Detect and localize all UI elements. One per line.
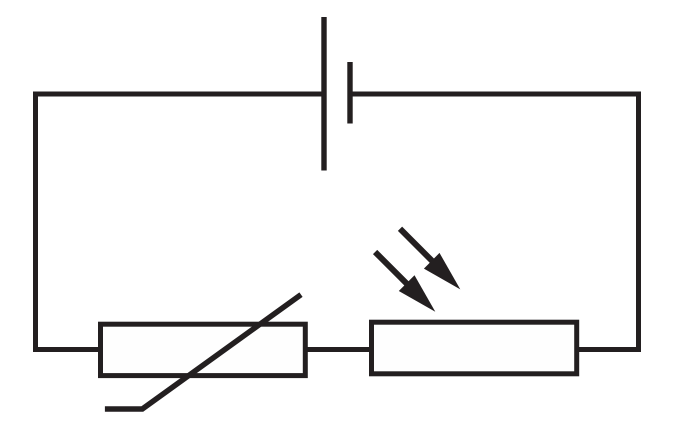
LDR light arrow (lower) bbox=[375, 252, 435, 312]
wire: battery - plate to top-right corner, down right side, to LDR bbox=[350, 94, 639, 350]
wire: battery + plate to top-left corner, down left side, to thermistor bbox=[36, 94, 325, 350]
battery long plate (+) bbox=[321, 17, 326, 171]
battery short plate (-) bbox=[347, 62, 352, 124]
LDR light arrow (upper) bbox=[400, 229, 460, 290]
battery cell B1 bbox=[324, 17, 350, 171]
thermistor body bbox=[101, 324, 306, 375]
LDR body bbox=[372, 322, 577, 374]
wire: thermistor to LDR bbox=[305, 347, 371, 352]
thermistor diagonal line with foot bbox=[105, 295, 301, 409]
